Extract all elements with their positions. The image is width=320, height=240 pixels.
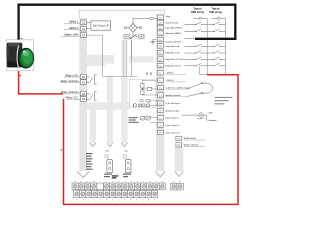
- svg-text:7: 7: [130, 200, 131, 202]
- svg-text:5: 5: [131, 181, 132, 183]
- supply row with node circles: [194, 17, 226, 20]
- label Relay Common 2: [61, 91, 81, 94]
- typical wiring header PNP: [209, 8, 222, 14]
- filter chain: capacitor C1: [132, 102, 157, 107]
- wire S1 to STO: [86, 21, 91, 23]
- safety terminal S2: [80, 26, 86, 31]
- svg-text:High-Flex In A: High-Flex In A: [166, 45, 180, 48]
- svg-text:9: 9: [156, 181, 157, 183]
- Safe Torque Off module U1: [91, 21, 111, 30]
- svg-text:S1: S1: [82, 21, 86, 25]
- label Safety +24V: [60, 32, 80, 36]
- opto coil Q1: [141, 116, 158, 122]
- relay contact K2: [86, 92, 96, 101]
- polarity mark plus: [19, 75, 21, 77]
- switch example rows: [185, 22, 226, 66]
- connector J2: [104, 155, 113, 177]
- svg-text:2: 2: [100, 200, 101, 202]
- wire pair to analog box: [123, 40, 126, 76]
- relay contact K1: [86, 75, 96, 84]
- trace T2 (vertical): [107, 77, 113, 147]
- typical wiring header NPN: [191, 8, 204, 14]
- label Relay N.O.: [64, 74, 80, 77]
- svg-text:53: 53: [80, 181, 82, 183]
- black wire button to input: [19, 5, 236, 40]
- trace T3 (vertical): [121, 40, 127, 146]
- svg-text:(B): (B): [106, 150, 109, 152]
- safety terminal S3: [80, 33, 86, 38]
- svg-text:6: 6: [124, 200, 125, 202]
- potentiometer P1: [140, 99, 158, 101]
- svg-text:Opto Output 2: Opto Output 2: [166, 124, 181, 127]
- svg-text:High-Flex In B: High-Flex In B: [166, 53, 180, 55]
- svg-text:Safety 1: Safety 1: [69, 20, 79, 24]
- RJ45 trace (vertical): [175, 147, 184, 177]
- pushbutton PB1: [7, 43, 35, 69]
- svg-text:10: 10: [161, 181, 163, 183]
- svg-text:Safety 2: Safety 2: [69, 26, 79, 30]
- svg-text:Common: Common: [208, 120, 218, 122]
- red wire relay NC to +24V: [64, 75, 239, 205]
- right terminal strip: [155, 14, 165, 177]
- svg-text:3: 3: [118, 181, 119, 183]
- svg-text:4: 4: [125, 181, 126, 183]
- svg-text:24V: 24V: [124, 36, 129, 39]
- svg-text:1: 1: [106, 181, 107, 183]
- svg-text:Stop: Stop: [166, 15, 171, 18]
- svg-text:S3: S3: [82, 33, 86, 37]
- lower bus trace (horizontal): [87, 102, 130, 110]
- label 24V GND bold: [112, 175, 119, 178]
- RJ45 shield terminal: [176, 136, 205, 141]
- NPN column bus: [206, 18, 208, 74]
- svg-text:(B): (B): [125, 150, 128, 152]
- trace T1 (vertical): [90, 102, 97, 146]
- svg-text:High-Flex I/O Pulse: High-Flex I/O Pulse: [166, 59, 186, 61]
- relay terminal R4: [80, 97, 86, 102]
- analog input loop example: [187, 83, 213, 97]
- svg-text:Safety +24V: Safety +24V: [64, 32, 78, 36]
- svg-text:R1: R1: [82, 75, 86, 79]
- svg-text:24: 24: [148, 102, 150, 104]
- svg-text:7: 7: [143, 181, 144, 183]
- svg-text:9: 9: [142, 200, 143, 202]
- label Relay N.C.: [66, 97, 81, 100]
- label Safety 1: [64, 20, 80, 24]
- svg-text:3: 3: [106, 200, 107, 202]
- svg-text:Digi In/Out A: Digi In/Out A: [166, 21, 179, 24]
- right terminal strip pins 1-18: [158, 15, 164, 135]
- label Safety 2: [64, 26, 80, 30]
- svg-text:R3: R3: [82, 92, 86, 96]
- svg-text:(A): (A): [60, 149, 63, 152]
- switch contact dots: [195, 24, 220, 66]
- bottom terminal strip row 2: [74, 190, 158, 197]
- power bus trace right: [129, 56, 154, 62]
- svg-text:4: 4: [112, 200, 113, 202]
- bus join wire: [200, 66, 226, 75]
- svg-text:+24V: +24V: [208, 112, 214, 114]
- svg-text:55: 55: [87, 181, 89, 183]
- svg-text:57: 57: [74, 181, 76, 183]
- svg-text:5: 5: [118, 200, 119, 202]
- earth common terminal: [176, 143, 205, 148]
- svg-text:NPN wiring: NPN wiring: [191, 11, 204, 14]
- bottom terminal strip row 1: [72, 183, 165, 190]
- svg-text:PNP wiring: PNP wiring: [209, 11, 222, 14]
- svg-text:24C: 24C: [139, 36, 144, 39]
- opto load lamp L1: [182, 112, 218, 122]
- 24V selector switch SW1: [123, 32, 145, 40]
- left terminal strip: [77, 18, 89, 178]
- safety terminal S1: [80, 20, 86, 25]
- svg-text:0-10 Volt Input: 0-10 Volt Input: [166, 102, 180, 105]
- relay terminal R2: [80, 80, 86, 85]
- PNP column bus: [224, 18, 226, 74]
- svg-text:R2: R2: [82, 80, 86, 84]
- note resistor text: [215, 97, 233, 105]
- svg-text:L: L: [88, 200, 89, 202]
- svg-text:8: 8: [149, 181, 150, 183]
- controller outline top edge: [79, 10, 164, 18]
- svg-text:Opto Output 1: Opto Output 1: [166, 117, 181, 120]
- svg-text:High-Flex I/O B: High-Flex I/O B: [166, 65, 181, 67]
- connector J3: [123, 155, 131, 177]
- power bus trace left: [87, 55, 105, 67]
- svg-text:Digital Common: Digital Common: [166, 41, 182, 44]
- svg-text:Earth Common: Earth Common: [184, 144, 199, 147]
- bridge rectifier BR1: [125, 24, 142, 33]
- wire Safety+24V to logic supply switch: [86, 35, 131, 76]
- polarity mark minus: [21, 37, 23, 40]
- svg-text:51: 51: [93, 181, 95, 183]
- power bus trace mid: [105, 55, 114, 64]
- svg-text:Opto Common: Opto Common: [166, 131, 181, 134]
- wire S2 to STO: [86, 28, 91, 30]
- svg-text:1: 1: [94, 200, 95, 202]
- label Relay Common 1: [60, 80, 80, 83]
- power label leader lines: [166, 74, 187, 96]
- resistor R5: [141, 80, 158, 95]
- aux terminal block C1 C2: [171, 183, 184, 190]
- resistor R6: [141, 88, 158, 96]
- relay terminal R3: [80, 91, 86, 96]
- svg-text:Analog Output: Analog Output: [166, 109, 180, 112]
- svg-text:R4: R4: [82, 97, 86, 101]
- svg-text:Safe Torque Off: Safe Torque Off: [93, 25, 109, 28]
- svg-text:8: 8: [136, 200, 137, 202]
- svg-text:Attention (RAS): Attention (RAS): [166, 32, 181, 35]
- svg-text:C1: C1: [173, 181, 175, 183]
- svg-text:C2: C2: [179, 181, 181, 183]
- ground symbol GND1: [151, 40, 156, 45]
- pin name text block: [86, 153, 93, 170]
- right strip pin labels: [166, 15, 190, 134]
- svg-text:Input (Run/TRG): Input (Run/TRG): [166, 27, 182, 30]
- wire fuse to bridge: [133, 18, 149, 23]
- svg-text:2: 2: [112, 181, 113, 183]
- fuse F1: [149, 17, 157, 19]
- svg-text:6: 6: [137, 181, 138, 183]
- analog section dashed box: [130, 79, 156, 107]
- red wire button to relay common: [19, 71, 63, 94]
- svg-text:S2: S2: [82, 27, 86, 31]
- relay terminal R1: [80, 74, 86, 79]
- jumper clips: [146, 73, 153, 76]
- wire switch common down: [131, 40, 133, 59]
- label DPDT note: [129, 117, 139, 123]
- pushbutton photo frame: [7, 40, 34, 71]
